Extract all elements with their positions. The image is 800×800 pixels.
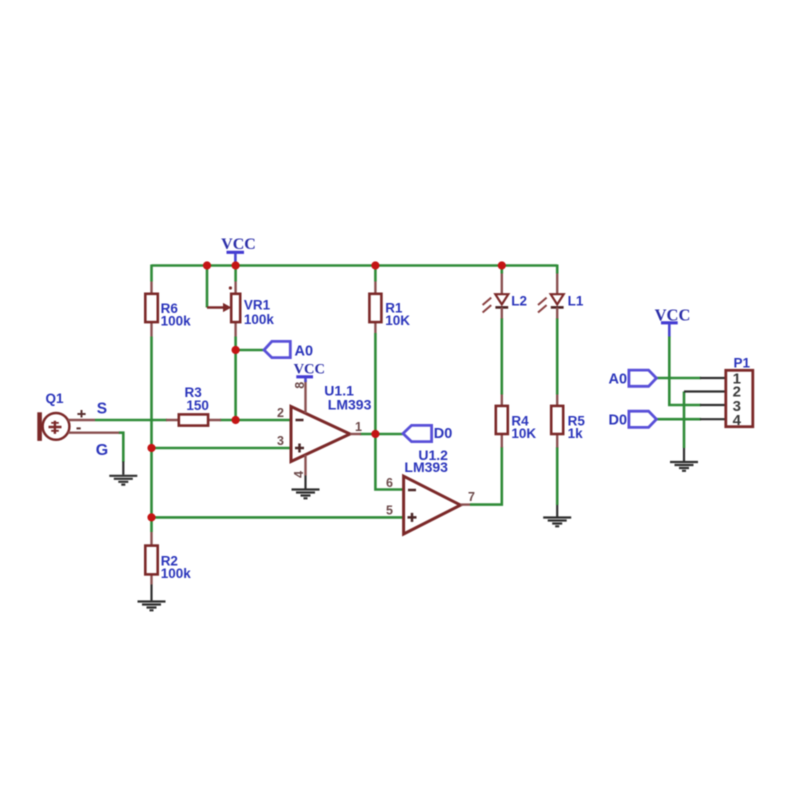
resistor R4 [496, 395, 537, 448]
wire A0 flag to pin 1 row [656, 377, 701, 380]
op-amp U1.1 [277, 381, 372, 478]
svg-text:10K: 10K [511, 426, 536, 441]
junction dot pin 3 node [147, 444, 155, 452]
svg-text:100k: 100k [161, 566, 192, 581]
wire P1 VCC to pin 3 [669, 336, 701, 405]
svg-text:100k: 100k [244, 312, 275, 327]
net flag D0 (at U1.1 output) [403, 425, 452, 442]
junction dot rail-wiper [203, 261, 211, 269]
svg-text:150: 150 [186, 398, 209, 413]
wire VCC rail [152, 264, 558, 267]
svg-text:VCC: VCC [294, 361, 325, 377]
svg-text:4: 4 [292, 471, 306, 478]
ground (U1.1 pin 4) [292, 476, 320, 499]
svg-text:VR1: VR1 [244, 298, 271, 313]
power flag VCC P1 [655, 305, 691, 336]
svg-text:A0: A0 [609, 371, 628, 387]
power flag VCC top [221, 236, 256, 265]
power flag VCC U1.1 [294, 361, 325, 382]
wire P1 pin stub 1 [700, 377, 726, 379]
junction dot A0 node [232, 346, 240, 354]
potentiometer VR1 [207, 282, 274, 337]
resistor R3 [166, 385, 221, 426]
wire mic S to R3 [95, 419, 167, 422]
wire L1 to R5 [556, 318, 559, 395]
svg-text:2: 2 [277, 406, 284, 420]
wire VR1 wiper riser [206, 265, 209, 308]
wire pin 2 to ground column [683, 392, 686, 449]
svg-text:3: 3 [277, 434, 284, 448]
svg-text:G: G [96, 442, 108, 459]
junction dot rail-R1 [371, 261, 379, 269]
svg-text:6: 6 [386, 476, 393, 490]
wire P1 pin stub 2 [684, 390, 726, 392]
svg-text:8: 8 [293, 382, 307, 389]
resistor R2 [145, 532, 191, 585]
ground (R5) [543, 505, 571, 526]
svg-text:100k: 100k [161, 313, 192, 328]
svg-text:Q1: Q1 [46, 391, 65, 406]
wire P1 pin stub 3 [700, 404, 726, 406]
LED L1 [538, 274, 584, 319]
svg-text:A0: A0 [295, 343, 314, 359]
LED L2 [483, 274, 527, 319]
svg-text:1k: 1k [568, 426, 584, 441]
connector P1 [726, 356, 753, 430]
wire D0 flag to pin 4 row [656, 418, 701, 421]
ground (R2) [138, 585, 166, 611]
svg-text:P1: P1 [734, 356, 751, 371]
svg-text:1: 1 [355, 420, 362, 434]
ground (P1 pin 2) [670, 448, 698, 471]
svg-text:D0: D0 [434, 426, 453, 442]
wire R1 top stub [374, 265, 377, 282]
svg-text:5: 5 [386, 503, 393, 517]
wire R3 to pin 2 [220, 419, 291, 422]
wire R1 bottom to pin 6 [375, 333, 403, 490]
net flag D0 (at P1) [609, 411, 657, 428]
wire L1 top stub [556, 265, 559, 274]
wire node to pin 3 [152, 447, 292, 450]
wire R6 top stub [150, 265, 153, 282]
resistor R1 [369, 282, 410, 334]
svg-text:LM393: LM393 [404, 459, 448, 475]
svg-text:VCC: VCC [221, 236, 256, 253]
svg-text:10K: 10K [385, 313, 410, 328]
ground (microphone) [109, 462, 137, 485]
junction dot R3 output node [232, 416, 240, 424]
wire L2 top stub [500, 265, 503, 274]
svg-text:L2: L2 [511, 294, 527, 309]
svg-text:4: 4 [733, 412, 742, 429]
net flag A0 (at P1) [609, 370, 657, 387]
wire P1 pin stub 4 [700, 418, 726, 420]
wire L2 to R4 [500, 318, 503, 395]
junction dot rail-VR1 [232, 261, 240, 269]
wire node to pin 5 [152, 516, 404, 519]
wire VR1 top stub [234, 265, 237, 282]
resistor R5 [551, 395, 585, 448]
op-amp U1.2 [386, 447, 475, 534]
wire R6-R2 divider column [150, 337, 153, 533]
wire pin 1 output [360, 433, 403, 436]
wire A0 stub [236, 349, 264, 352]
net flag A0 (at VR1) [264, 341, 313, 359]
junction dot pin 1 node [371, 430, 379, 438]
wire R5 to ground [556, 447, 559, 505]
svg-text:L1: L1 [568, 294, 584, 309]
wire pin 7 to R4 [470, 447, 502, 505]
svg-text:7: 7 [468, 490, 475, 504]
wire VR1 bottom column [234, 337, 237, 421]
wire mic G to ground [119, 433, 124, 462]
svg-text:D0: D0 [609, 413, 628, 429]
svg-text:S: S [97, 401, 107, 418]
microphone Q1 [37, 391, 119, 459]
svg-text:LM393: LM393 [328, 396, 372, 412]
junction dot rail-L2 [498, 261, 506, 269]
junction dot pin 5 node [147, 513, 155, 521]
resistor R6 [145, 282, 191, 337]
